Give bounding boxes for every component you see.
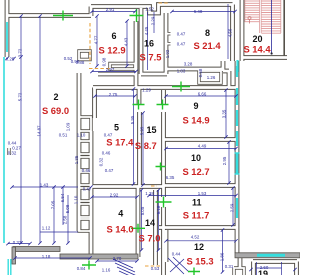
wall bottom-left stub	[12, 247, 16, 264]
svg-text:S 8.7: S 8.7	[135, 140, 157, 151]
window bottom right	[257, 254, 285, 257]
dim line	[147, 12, 149, 70]
dim line	[149, 195, 236, 197]
wall room14 right	[153, 190, 158, 265]
stair flight divider	[245, 0, 281, 33]
svg-text:0.58: 0.58	[198, 68, 203, 77]
dim line	[15, 257, 90, 259]
dim line	[166, 240, 236, 242]
dim line	[96, 16, 98, 66]
outer wall right	[235, 61, 240, 253]
wall rooms 10-11	[164, 183, 238, 188]
dim line	[166, 95, 236, 97]
dim line	[257, 267, 282, 269]
dim line	[53, 187, 55, 243]
door frame stub a	[166, 32, 171, 35]
dim line	[281, 262, 283, 275]
svg-text:1.12: 1.12	[42, 226, 51, 231]
svg-text:6: 6	[111, 31, 116, 41]
dim line	[232, 188, 234, 225]
svg-text:S 21.4: S 21.4	[193, 40, 221, 51]
svg-text:5.72: 5.72	[18, 92, 23, 101]
wall edge right of shaft	[238, 258, 243, 268]
svg-text:0.47: 0.47	[83, 187, 92, 192]
svg-text:0.31: 0.31	[225, 264, 234, 269]
dim line	[62, 187, 64, 225]
outer wall top main	[91, 5, 233, 14]
outer wall left upper	[5, 0, 10, 57]
dim line	[92, 196, 137, 198]
svg-text:S 12.7: S 12.7	[182, 166, 209, 177]
closet strip left wall	[77, 73, 82, 231]
stair hatch room 20	[245, 1, 281, 33]
dim line	[8, 243, 30, 245]
room19 walls	[253, 262, 297, 275]
svg-text:12: 12	[194, 242, 204, 252]
svg-text:4.49: 4.49	[198, 143, 207, 148]
wall rooms 4-14	[136, 187, 141, 258]
svg-text:0.51: 0.51	[59, 133, 68, 138]
closet top corridor	[79, 51, 90, 60]
dim line	[92, 11, 135, 13]
svg-text:8: 8	[205, 28, 210, 38]
wall room2 bottom	[13, 247, 60, 252]
wall rooms col right of 15	[161, 90, 166, 275]
wall corridor jog	[223, 61, 229, 87]
window right 5	[236, 153, 239, 174]
svg-text:S 15.3: S 15.3	[186, 255, 213, 266]
svg-text:11: 11	[192, 198, 202, 208]
stair wall left	[240, 0, 245, 61]
stair walk arrow	[248, 17, 251, 20]
svg-text:16: 16	[144, 39, 154, 49]
svg-text:1.52: 1.52	[145, 6, 154, 11]
wall room12 left	[164, 230, 169, 262]
svg-text:14: 14	[145, 218, 155, 228]
wall room5 left	[92, 88, 97, 119]
dim line	[166, 148, 236, 150]
dashed former wall d	[151, 185, 157, 187]
outer wall bottom right	[235, 253, 300, 258]
svg-text:0.46: 0.46	[102, 151, 111, 156]
svg-text:4.52: 4.52	[191, 235, 200, 240]
svg-text:1.35: 1.35	[74, 155, 79, 164]
dim line	[39, 16, 41, 243]
svg-text:1.83: 1.83	[177, 69, 186, 74]
dim line	[126, 21, 128, 66]
svg-text:1.29: 1.29	[142, 88, 151, 93]
svg-text:9: 9	[193, 101, 198, 111]
svg-text:2.58: 2.58	[63, 215, 68, 224]
svg-text:1.26: 1.26	[207, 75, 216, 80]
svg-text:7.05: 7.05	[51, 200, 56, 209]
closet cell d	[79, 188, 91, 201]
svg-text:1.53: 1.53	[198, 191, 207, 196]
dim line	[222, 230, 224, 272]
svg-text:5.08: 5.08	[65, 204, 70, 213]
vent cross D	[133, 100, 145, 110]
vent cross B	[130, 9, 144, 22]
closet cell e	[79, 204, 91, 217]
svg-text:0.47: 0.47	[105, 168, 114, 173]
stair wall bottom	[241, 55, 287, 60]
closet below room8	[199, 71, 221, 83]
svg-text:1.92: 1.92	[165, 49, 170, 58]
svg-text:5.95: 5.95	[140, 126, 145, 135]
window shaft top right	[236, 60, 238, 72]
svg-text:S 7.0: S 7.0	[139, 233, 161, 244]
svg-text:1.86: 1.86	[219, 252, 224, 261]
svg-text:3.72: 3.72	[18, 48, 23, 57]
closet cell top	[79, 117, 91, 131]
wall rooms 9-10	[164, 137, 238, 142]
vent cross F	[156, 197, 172, 208]
svg-text:5: 5	[114, 123, 119, 133]
wall room2 right	[89, 131, 94, 259]
window strip left	[3, 57, 5, 243]
vent cross H	[188, 268, 200, 275]
door frame stub b	[166, 42, 171, 45]
window right 6	[236, 198, 238, 218]
dim line	[142, 113, 144, 185]
wall mid horizontal	[93, 85, 237, 90]
dashed former wall c	[145, 265, 161, 267]
dim line	[158, 190, 160, 250]
svg-text:S 14.0: S 14.0	[106, 224, 133, 235]
wall room4 top	[92, 184, 163, 189]
window right 4	[236, 131, 238, 146]
dim line	[40, 231, 78, 233]
svg-text:0.47: 0.47	[177, 32, 186, 37]
closet cell b	[79, 157, 91, 170]
dim line	[12, 186, 78, 188]
svg-text:6.48: 6.48	[194, 9, 203, 14]
dim line	[228, 142, 230, 183]
svg-text:15: 15	[146, 125, 156, 135]
svg-text:2.95: 2.95	[222, 156, 227, 165]
window right 5 cap a	[235, 152, 240, 154]
svg-text:5.05: 5.05	[140, 206, 145, 215]
stair wall right	[283, 0, 285, 58]
svg-text:0.98: 0.98	[102, 57, 107, 66]
svg-text:2.92: 2.92	[110, 193, 119, 198]
svg-text:S 11.7: S 11.7	[183, 209, 210, 220]
svg-text:S 14.9: S 14.9	[182, 115, 209, 126]
svg-text:3.35: 3.35	[222, 109, 227, 118]
svg-text:19: 19	[258, 269, 268, 275]
vent cross G	[131, 224, 145, 233]
svg-text:0.32: 0.32	[99, 157, 104, 166]
wall room15 left upper	[137, 87, 142, 104]
wall rooms 6-16	[139, 8, 144, 74]
window right 1	[236, 66, 238, 77]
window right 2	[236, 88, 238, 105]
svg-text:1.10: 1.10	[74, 195, 79, 204]
balcony glazing b	[10, 259, 12, 275]
room12 door swing	[168, 257, 189, 274]
wall room6 right	[134, 21, 139, 87]
dim line	[97, 260, 137, 262]
svg-text:0.25: 0.25	[6, 56, 15, 61]
wall room16 bottom	[141, 72, 167, 77]
svg-text:1.09: 1.09	[66, 122, 71, 131]
svg-text:1.43: 1.43	[40, 182, 49, 187]
dim line	[133, 89, 135, 184]
svg-text:0.32: 0.32	[8, 151, 17, 156]
niche room6	[110, 64, 135, 70]
vent cross C	[172, 82, 190, 92]
svg-text:2: 2	[53, 92, 58, 102]
dim line	[67, 195, 69, 243]
svg-text:0.33: 0.33	[13, 240, 22, 245]
wall step top left	[89, 7, 94, 17]
svg-text:6.66: 6.66	[198, 91, 207, 96]
svg-text:1.10: 1.10	[77, 133, 86, 138]
svg-text:S 17.4: S 17.4	[106, 137, 134, 148]
svg-text:5.18: 5.18	[156, 205, 161, 214]
svg-text:2.29: 2.29	[151, 16, 156, 25]
window right 5 cap b	[235, 173, 240, 175]
svg-text:2.97: 2.97	[106, 67, 115, 72]
dim line	[172, 11, 235, 13]
svg-text:0.98: 0.98	[71, 59, 80, 64]
dashed former wall e	[159, 2, 170, 4]
svg-text:2.59: 2.59	[230, 203, 235, 212]
entry steps diagonal hatch	[113, 259, 139, 275]
svg-text:10: 10	[191, 153, 201, 163]
svg-text:3.28: 3.28	[184, 62, 193, 67]
svg-text:0.84: 0.84	[77, 266, 86, 271]
svg-text:0.53: 0.53	[151, 266, 160, 271]
vent cross A	[53, 11, 73, 21]
svg-text:1.16: 1.16	[102, 268, 111, 273]
svg-text:0.46: 0.46	[82, 168, 91, 173]
closet cell a	[79, 141, 91, 154]
dashed former wall b	[89, 68, 110, 70]
svg-text:5.95: 5.95	[130, 115, 135, 124]
window right 3	[236, 110, 238, 126]
svg-text:S 14.4: S 14.4	[243, 43, 271, 54]
svg-text:2.91: 2.91	[106, 7, 115, 12]
closet cell c	[79, 172, 91, 185]
svg-text:4: 4	[118, 209, 123, 219]
wall rooms 11-12	[159, 225, 237, 230]
dim line	[141, 190, 143, 250]
stair dim line	[271, 0, 273, 54]
wall rooms 16-8	[164, 13, 169, 74]
svg-text:6.35: 6.35	[166, 175, 175, 180]
shaft box bottom	[234, 268, 244, 275]
dim line	[256, 262, 258, 275]
svg-text:4.77: 4.77	[94, 35, 99, 44]
dim line	[227, 4, 229, 59]
wall stub far left	[7, 148, 10, 155]
wall room6 bottom	[98, 72, 136, 77]
dim line	[95, 95, 135, 97]
svg-text:1.18: 1.18	[42, 254, 51, 259]
svg-text:0.47: 0.47	[177, 42, 186, 47]
window left upper	[6, 22, 8, 52]
svg-text:6.54: 6.54	[60, 193, 65, 202]
outer wall room2 top	[7, 13, 91, 18]
svg-text:S 12.9: S 12.9	[98, 44, 125, 55]
svg-text:2.75: 2.75	[109, 92, 118, 97]
svg-text:4.56: 4.56	[228, 28, 233, 37]
wall room15 left	[137, 112, 142, 186]
svg-text:1.28: 1.28	[145, 191, 154, 196]
dim line	[225, 90, 227, 137]
svg-text:14.87: 14.87	[37, 125, 42, 137]
vent cross J	[82, 261, 96, 270]
dim line	[153, 12, 155, 33]
wall room4 bottom	[60, 254, 138, 259]
svg-text:2.70: 2.70	[113, 256, 122, 261]
balcony glazing a	[7, 259, 9, 275]
svg-text:0.44: 0.44	[172, 252, 181, 257]
svg-text:S 7.5: S 7.5	[140, 52, 162, 63]
dashed former wall a	[89, 23, 91, 64]
dim line	[20, 16, 22, 243]
closet cell f	[79, 219, 91, 231]
wall room8 bottom	[166, 67, 223, 72]
svg-text:S 69.0: S 69.0	[42, 105, 69, 116]
svg-text:4.45: 4.45	[144, 26, 149, 35]
wall room8 right	[230, 5, 235, 62]
vent cross I	[156, 163, 166, 171]
dim line	[92, 71, 136, 73]
vent cross E	[157, 100, 169, 110]
